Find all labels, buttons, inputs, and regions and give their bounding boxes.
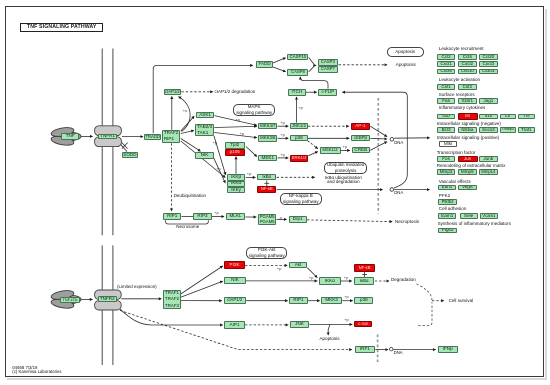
label +p complex->IKK bbox=[216, 166, 221, 171]
DNA circle upper bbox=[390, 138, 394, 142]
label Deubiquitination bbox=[174, 194, 206, 199]
node ASK1 bbox=[196, 112, 214, 118]
group label Remodeling of extracellular matrix bbox=[437, 164, 506, 169]
node NIK (upper) bbox=[195, 152, 213, 159]
wire TRAF -> PI3K bbox=[180, 266, 223, 295]
node CASP3 bbox=[318, 59, 339, 66]
wire TNFR2 -> TRAF1/2/3 bbox=[121, 298, 161, 300]
gene Vcam1 bbox=[480, 213, 498, 219]
wire complex -> NIK bbox=[181, 139, 201, 152]
gene Cx3cl1 bbox=[479, 69, 498, 75]
label DNA (mid) bbox=[394, 191, 403, 196]
gene Tnf bbox=[518, 114, 536, 120]
gene Junb bbox=[479, 156, 498, 162]
gene Fas bbox=[437, 98, 456, 104]
group label Leukocyte activation bbox=[439, 78, 480, 83]
wire FADD -> CASP8 bbox=[273, 67, 286, 72]
pathway link Apoptosis bbox=[387, 47, 424, 56]
wire JNK1/2 dashed -> AP-1 bbox=[308, 125, 349, 127]
node NF-kB (highlighted, upper) bbox=[257, 186, 276, 193]
label Necrosome bbox=[176, 225, 199, 230]
node JNK1/2 bbox=[290, 123, 308, 130]
gene Jun (highlighted) bbox=[458, 156, 478, 162]
label +p MKK3->p38 bbox=[344, 294, 349, 299]
label +p MKK3/6->p38 bbox=[280, 132, 285, 137]
group label Leukocyte recruitment bbox=[439, 47, 484, 52]
node CASP8 bbox=[287, 69, 308, 76]
node p105 (highlighted) bbox=[225, 149, 245, 156]
wire MKK3/6 -> p38 (+p) bbox=[278, 137, 289, 139]
label +p IKKa->IkBa bbox=[344, 275, 349, 280]
node MSK1/2 bbox=[320, 147, 341, 154]
wire JNK1/2 -> ITCH (+p up) bbox=[296, 97, 298, 123]
wire CREB -> DNA bbox=[370, 142, 387, 151]
gene Cxcl5 bbox=[437, 69, 456, 75]
wire TNFR2 -> AIP1 (curved) bbox=[120, 309, 223, 325]
node IkBa (upper) bbox=[257, 174, 276, 180]
pathway link MAPK signaling pathway bbox=[233, 104, 275, 117]
node CASP10 bbox=[287, 54, 308, 61]
wire TNFR1 -> TRADD bbox=[122, 136, 143, 138]
label +p TAK1->IKK bbox=[213, 140, 218, 145]
node NIK (lower) bbox=[224, 277, 245, 284]
label +p MKK4/7->JNK bbox=[280, 120, 285, 125]
wire MEK1 -> ERK1/2 (+p) bbox=[278, 157, 289, 159]
node AIP1 bbox=[224, 321, 244, 328]
label +p MSK->CREB bbox=[343, 144, 348, 149]
group label Intracellular signaling (negative) bbox=[437, 122, 501, 127]
cell membrane (bottom section, double line) bbox=[101, 245, 103, 365]
node IKKb bbox=[227, 174, 246, 180]
TNF ligand trimer (top) bbox=[50, 126, 81, 147]
group label Inflammatory cytokines bbox=[439, 106, 486, 111]
node CREB bbox=[352, 147, 371, 153]
wire ITCH -> c-FLIP bbox=[306, 91, 317, 93]
wire ERK -> MSK1/2 bbox=[308, 152, 317, 156]
label Degradation bbox=[391, 278, 416, 283]
label IkBa ubiquitination and degradation bbox=[324, 176, 362, 185]
node cIAP1/2 (lower) bbox=[224, 297, 247, 305]
DNA circle bottom section bbox=[390, 348, 393, 351]
gene Mmp3 bbox=[437, 169, 456, 175]
wires: all signal lines, stroke #333 bbox=[81, 58, 436, 350]
group label Synthesis of inflammatory mediators bbox=[438, 222, 511, 227]
wire JNK -> c-Jun (+p) bbox=[309, 323, 352, 325]
TNFR2 receptor body bbox=[95, 290, 122, 310]
node PGAM5 complex bbox=[258, 214, 276, 226]
node Tpl2 bbox=[225, 142, 245, 149]
wire IkBa dashed -> ubiquitination text bbox=[277, 176, 315, 178]
gene Cxcl10 bbox=[458, 69, 478, 75]
label +p Akt->IKKa bbox=[309, 275, 314, 280]
pathway link PI3K-Akt signaling pathway bbox=[246, 247, 287, 260]
gene Ccl20 bbox=[479, 54, 498, 60]
footer copyright bbox=[12, 370, 61, 375]
wire cIAP1/2 -> RIP1 (lower) bbox=[246, 300, 287, 302]
gene Vegfc bbox=[458, 185, 477, 191]
title box bbox=[20, 23, 103, 32]
gene Fos bbox=[437, 156, 456, 162]
nuclear membrane (bottom, dashed) bbox=[377, 335, 379, 363]
node JNK (lower) bbox=[290, 321, 309, 327]
label Necroptosis bbox=[395, 220, 419, 225]
wire complex -> IKK (+p) bbox=[181, 141, 226, 178]
node c-FLIP bbox=[318, 89, 337, 96]
wire TAK1 -> MKK3/6 bbox=[214, 133, 256, 138]
node IkBa (lower) bbox=[354, 277, 375, 284]
wire complex -> TAB2/3 TAK1 bbox=[181, 131, 194, 134]
node c-Jun (highlighted) bbox=[354, 321, 372, 328]
wire TRAF2 -> cIAP1/2 bbox=[171, 96, 173, 129]
wire TNFR1 -> SODD with X bbox=[118, 141, 128, 152]
node RIP1 (necrosome) bbox=[163, 213, 181, 220]
gene Ccl2 bbox=[437, 54, 456, 60]
pathway link Ubiquitin mediated proteolysis bbox=[324, 162, 367, 174]
wire cIAP1/2 dashed -> degradation bbox=[181, 91, 212, 93]
DNA circle lower bbox=[390, 188, 394, 192]
wire PI3K dashed -> Akt (+p) bbox=[245, 264, 287, 266]
label Apoptosis bbox=[396, 63, 416, 68]
wire TAK1 -> MKK4/7 bbox=[214, 126, 256, 127]
label DNA (bottom) bbox=[394, 351, 403, 356]
node MEK1 bbox=[258, 155, 277, 162]
wire RIP1 -> MKK3 bbox=[308, 300, 320, 302]
node p38 bbox=[290, 135, 308, 141]
node TNF,LTA bbox=[60, 297, 80, 303]
wire NF-kB -> DNA (lower) bbox=[277, 189, 383, 191]
wire p38 -> cEBPb bbox=[308, 137, 349, 139]
wire TNF -> TNFR1 bbox=[81, 135, 93, 137]
node RIP3 bbox=[193, 213, 211, 220]
node MKK3 bbox=[321, 297, 342, 305]
gene Cxcl3 bbox=[479, 61, 498, 67]
label +p RIP3->MLKL bbox=[214, 210, 219, 215]
node MLKL bbox=[226, 213, 245, 220]
node TRAF1/TRAF2/TRAF3 bbox=[163, 290, 180, 310]
node TNFR2 bbox=[98, 296, 117, 302]
gene Cxcl2 bbox=[458, 61, 478, 67]
node NF-kB (highlighted, lower) bbox=[354, 264, 376, 272]
label -p PGAM5->Drp1 bbox=[279, 215, 283, 220]
wire MLKL -> PGAM5 bbox=[245, 216, 256, 218]
wire TNFR2 dashed -> IRF1 bbox=[120, 310, 352, 349]
node IKKg bbox=[227, 187, 246, 193]
node TRAF2/RIP1 complex bbox=[162, 130, 181, 143]
wire AP-1 -> DNA bbox=[370, 126, 387, 136]
wire MKK3 -> p38 (+p lower) bbox=[342, 300, 352, 302]
gene Il18r1 bbox=[458, 98, 478, 104]
necrosome bracket bbox=[166, 220, 209, 224]
wire TNF,LTA -> TNFR2 bbox=[81, 298, 93, 300]
label +p JNK->ITCH bbox=[298, 105, 303, 110]
label cIAP1/2 degradation bbox=[215, 90, 256, 95]
wire NIK -> IKK bbox=[214, 158, 226, 183]
footer id bbox=[12, 366, 37, 371]
gene Jag1 bbox=[479, 98, 498, 104]
wire c-FLIP inhibits CASP8 bbox=[300, 77, 328, 89]
gene Pfkfb3 bbox=[438, 199, 457, 205]
complex link IkBa/NF-kB (upper) bbox=[264, 180, 367, 277]
wire RIP1 - RIP3 bbox=[182, 216, 194, 218]
node TAB2/3 TAK1 bbox=[195, 124, 214, 136]
gene Mlkl (uncolored) bbox=[439, 141, 458, 147]
gene Sele bbox=[460, 213, 478, 219]
label Apoptosis (bottom) bbox=[320, 337, 340, 342]
group label Transcription factor bbox=[437, 151, 476, 156]
node PI3K (highlighted) bbox=[224, 261, 244, 269]
node MKK4/7 bbox=[258, 123, 277, 130]
wire +u arc complex to cIAP1/2 bbox=[179, 97, 191, 132]
pathway link NF-kappa B signaling pathway bbox=[280, 193, 322, 206]
wire IKKb -> IkBa (+p) bbox=[246, 176, 256, 178]
wire AIP1 dashed -> JNK bbox=[245, 324, 288, 326]
wire JNK branch -> Apoptosis (down) bbox=[328, 325, 330, 335]
cell membrane (top section, double line) bbox=[102, 49, 113, 366]
complex link NF-kB/IkBa (lower) bbox=[364, 272, 366, 278]
gene Csf2 bbox=[458, 84, 478, 90]
wire complex -> ASK1 bbox=[181, 116, 194, 131]
gene Tnfaip3 bbox=[500, 127, 516, 133]
node IFNb bbox=[438, 346, 458, 353]
TNF,LTA ligand trimer (bottom) bbox=[50, 289, 81, 310]
gene Socs3 bbox=[479, 127, 498, 133]
wire TRADD riser to FADD bbox=[153, 65, 253, 133]
gene Csf1 bbox=[437, 84, 456, 90]
node cEBPb bbox=[351, 135, 370, 141]
node IKKa (lower) bbox=[319, 277, 341, 285]
wire cEBPb -> DNA bbox=[370, 137, 387, 140]
wire IKKb -> p105 (up) bbox=[235, 157, 237, 174]
node cIAP1/2 bbox=[164, 89, 182, 96]
gene Mmp14 bbox=[479, 169, 498, 175]
node Drp1 bbox=[289, 216, 307, 223]
label +p IKK->IkBa bbox=[247, 171, 252, 176]
node Akt bbox=[289, 262, 307, 269]
wire lower DNA -> gene list bbox=[394, 189, 429, 191]
wire ASK1 -> MKK4/7 bbox=[214, 116, 256, 126]
wire Drp1 dashed -> Necroptosis bbox=[307, 220, 392, 222]
gene Il6 (highlighted) bbox=[458, 113, 478, 119]
node CASP7 bbox=[318, 66, 339, 73]
wire DNA feedback -> c-FLIP bbox=[342, 92, 407, 188]
wire NIK -> IKKa (lower) bbox=[246, 280, 317, 282]
wire PGAM5 -> Drp1 (-p) bbox=[277, 218, 287, 220]
gene Edn1 bbox=[438, 185, 457, 191]
node IKKa bbox=[227, 181, 246, 187]
group label Vascular effects bbox=[439, 180, 471, 185]
gene Nfkbia bbox=[458, 127, 478, 133]
label DNA (upper) bbox=[394, 141, 403, 146]
wire DNA -> IFNb bbox=[393, 349, 435, 351]
node TNF (ligand) bbox=[61, 133, 79, 140]
node AP-1 (highlighted) bbox=[351, 123, 371, 130]
wire IkBa dashed -> Degradation bbox=[375, 280, 389, 282]
node SODD bbox=[122, 152, 139, 158]
wire CASP8/10 -> CASP3/7 bbox=[309, 58, 315, 65]
TNFR1 receptor body bbox=[95, 126, 122, 147]
group label Surface receptors bbox=[439, 93, 475, 98]
label Cell survival bbox=[449, 299, 474, 304]
gene Mmp9 bbox=[458, 169, 478, 175]
group label Intracellular signaling (positive) bbox=[437, 136, 499, 141]
node MKK3/6 bbox=[258, 135, 277, 141]
gene Il1b bbox=[437, 114, 456, 120]
wire TRAF -> cIAP1/2 (lower) bbox=[180, 300, 222, 302]
wire TRAF -> NIK (lower) bbox=[180, 281, 223, 297]
dashed gray: Degradation -> Cell survival merge bbox=[417, 284, 444, 326]
label Limited expression bbox=[117, 285, 157, 290]
node TRADD bbox=[144, 134, 161, 140]
node IRF1 bbox=[355, 346, 375, 353]
node TNFR1 bbox=[98, 134, 117, 140]
gene Icam1 bbox=[438, 213, 457, 219]
wire IKKa -> IkBa (+p lower) bbox=[341, 280, 352, 282]
node FADD bbox=[256, 61, 273, 68]
wire complex dashed down -> RIP1 (Deubiquitination) bbox=[171, 143, 173, 211]
wire MSK1/2 -> CREB (+p) bbox=[341, 149, 350, 151]
wire Tpl2 -> MEK1 bbox=[246, 147, 257, 157]
nuclear membrane (top, dashed) bbox=[377, 98, 379, 214]
wire FADD -> CASP10 bbox=[273, 58, 286, 63]
node p38 (lower) bbox=[354, 297, 373, 305]
label +p JNK->c-Jun bbox=[344, 317, 349, 322]
gene Bcl3 bbox=[437, 127, 456, 133]
wire TAK1 -> IKK (+p) bbox=[214, 136, 226, 175]
label +p MEK1->ERK bbox=[280, 152, 285, 157]
wire Akt -> IKKa (+p) bbox=[307, 268, 317, 278]
node RIP1 (lower) bbox=[289, 297, 308, 305]
wire CASP3/7 dashed -> Apoptosis bbox=[339, 64, 387, 66]
label +u bbox=[183, 108, 188, 113]
wire MKK4/7 -> JNK1/2 (+p) bbox=[278, 125, 289, 127]
group label PFK2 bbox=[439, 194, 450, 199]
gene Cxcl1 bbox=[437, 61, 456, 67]
gene Ptgs2 bbox=[438, 228, 457, 234]
node ITCH bbox=[288, 89, 305, 96]
label +p PI3K->Akt bbox=[277, 266, 282, 271]
label +p TAK1->MKK bbox=[240, 131, 245, 136]
gene Il15 bbox=[479, 114, 498, 120]
gene Traf1 bbox=[518, 127, 536, 133]
label +p ASK1->MKK4/7 bbox=[236, 117, 241, 122]
gene Lif bbox=[500, 114, 516, 120]
node ERK1/2 (highlighted) bbox=[290, 155, 308, 162]
gene Ccl5 bbox=[458, 54, 478, 60]
wire IRF1 -> DNA (bottom) bbox=[375, 349, 388, 351]
group label Cell adhesion bbox=[439, 207, 467, 212]
wire RIP3 -> MLKL (+p) bbox=[212, 216, 224, 218]
wire upper DNA -> gene list bbox=[394, 137, 429, 139]
wire p38 dashed -> MSK1/2 bbox=[308, 141, 318, 149]
